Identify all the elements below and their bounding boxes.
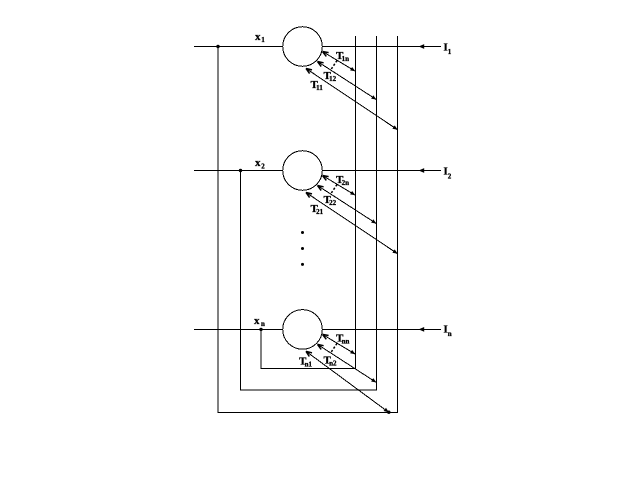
svg-text:2: 2: [261, 163, 265, 171]
svg-text:1: 1: [261, 36, 265, 44]
svg-text:12: 12: [329, 75, 337, 83]
svg-text:1n: 1n: [342, 55, 350, 63]
svg-text:1: 1: [448, 48, 452, 56]
svg-text:n: n: [448, 330, 452, 338]
svg-text:nn: nn: [342, 338, 350, 346]
svg-text:2: 2: [448, 172, 452, 180]
svg-text:n2: n2: [329, 360, 337, 368]
svg-text:x: x: [254, 315, 260, 327]
svg-text:n: n: [261, 320, 265, 328]
svg-text:n1: n1: [305, 361, 313, 369]
svg-text:21: 21: [316, 208, 324, 216]
svg-text:2n: 2n: [342, 179, 350, 187]
svg-text:22: 22: [329, 199, 337, 207]
svg-text:x: x: [255, 31, 261, 43]
svg-text:x: x: [255, 157, 261, 169]
svg-text:11: 11: [316, 84, 323, 92]
